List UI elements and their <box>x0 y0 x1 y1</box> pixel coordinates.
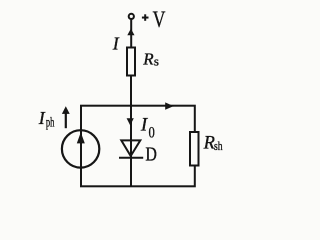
arrowhead: I0 (down) above diode <box>127 118 134 125</box>
svg-text:I: I <box>38 108 46 128</box>
arrowhead: current I (up) on terminal lead <box>127 29 134 36</box>
wire: main loop rectangle (top rail, left branch, right branch, bottom rail) <box>81 106 195 187</box>
arrowhead: current into Rsh branch (right) on top rail <box>165 102 173 109</box>
svg-text:sh: sh <box>214 138 223 153</box>
svg-text:D: D <box>145 144 157 166</box>
svg-text:I: I <box>112 34 120 54</box>
svg-text:V: V <box>153 7 166 33</box>
terminal +V (open circle) <box>129 14 134 19</box>
arrow: external Iph reference arrow (up) <box>65 112 67 129</box>
current source Iph (circle) <box>62 130 99 167</box>
resistor Rs (box) <box>127 48 135 76</box>
diode D cathode bar <box>119 157 143 159</box>
svg-text:s: s <box>154 53 159 68</box>
wire: Rs down through node to diode and bottom rail <box>130 76 132 187</box>
diode D (triangle) <box>121 140 140 156</box>
svg-text:R: R <box>142 50 154 69</box>
label + (of +V) <box>142 17 149 19</box>
arrowhead: current source internal arrow (up) <box>77 132 85 143</box>
svg-text:ph: ph <box>46 115 55 130</box>
resistor Rsh (box) <box>190 132 199 166</box>
svg-text:0: 0 <box>149 124 155 141</box>
wire: terminal lead down to Rs <box>130 20 132 48</box>
